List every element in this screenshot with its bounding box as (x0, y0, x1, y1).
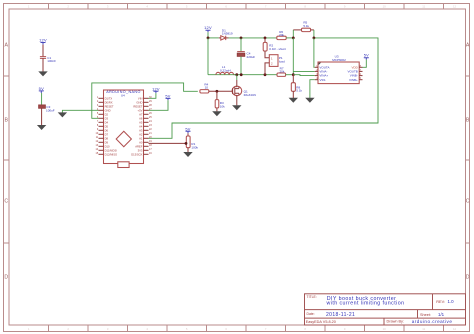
svg-text:VIN: VIN (138, 96, 143, 100)
U4 left pin names (105, 96, 118, 156)
wire GND pin to ground (62, 110, 98, 112)
svg-text:A0: A0 (139, 140, 143, 144)
svg-text:3V3: 3V3 (138, 148, 143, 152)
svg-text:D0/RX: D0/RX (105, 100, 113, 104)
title block DrawnBy divider (383, 318, 385, 325)
U4 diamond logo (116, 131, 131, 146)
wire lower bus left (208, 74, 237, 76)
wire C1 to ground (42, 58, 44, 71)
wire R5 right leg down (313, 30, 315, 38)
junction top bus / C4 (240, 37, 243, 40)
svg-text:5V: 5V (364, 53, 369, 58)
svg-text:D8: D8 (105, 136, 109, 140)
wire R8 branch (292, 75, 294, 83)
svg-text:C: C (4, 199, 8, 205)
U3 left pin names (319, 65, 329, 81)
svg-text:12V: 12V (152, 86, 160, 91)
wire A0 to R1 wiper (149, 142, 187, 144)
diode D1 1N5819 (219, 28, 233, 40)
svg-text:100k: 100k (191, 146, 198, 150)
svg-text:A2: A2 (139, 132, 143, 136)
wire Q1 source to ground (236, 95, 238, 106)
title block Sheet divider (417, 310, 419, 319)
svg-text:A1: A1 (139, 136, 143, 140)
U3 right pin stubs (359, 67, 362, 79)
svg-text:D4: D4 (105, 120, 109, 124)
svg-text:A7: A7 (139, 112, 143, 116)
wire A1 to feedback loop (long) (149, 38, 379, 138)
wire R4 to Q1 gate (209, 90, 233, 92)
svg-text:D9: D9 (105, 140, 109, 144)
svg-text:Date:: Date: (307, 312, 315, 316)
U4 right pin stubs (144, 98, 149, 154)
ground (R3) (212, 111, 221, 116)
svg-text:5.1k: 5.1k (296, 89, 302, 93)
ground (Q1) (232, 105, 241, 110)
svg-text:5V: 5V (185, 126, 190, 131)
wire R3 to ground (216, 108, 218, 112)
svg-text:load: load (279, 59, 285, 63)
svg-text:2018-11-21: 2018-11-21 (326, 312, 355, 318)
wire R2 branch from bus (264, 38, 266, 43)
svg-text:D: D (466, 275, 470, 281)
svg-text:D7: D7 (105, 132, 109, 136)
ground (U4 GND) (58, 112, 67, 117)
wire P1 pin2 to lower bus (265, 63, 269, 75)
U3 right pin numbers (360, 65, 362, 80)
wire VINA- (293, 70, 315, 72)
wire R2 to P1 pin1 (265, 51, 269, 58)
svg-text:D5: D5 (105, 124, 109, 128)
svg-text:+5V: +5V (138, 108, 143, 112)
resistor R2 shunt (263, 42, 286, 51)
svg-text:VSS: VSS (319, 78, 325, 82)
junction gate / R3 (216, 90, 219, 93)
power flag 5V (+5V pin) (165, 93, 170, 100)
title block box (305, 294, 466, 325)
svg-text:REV:: REV: (436, 300, 445, 304)
wire top bus segment (12V to D1) (208, 37, 219, 39)
resistor R4 10 (200, 83, 209, 93)
svg-text:10: 10 (383, 327, 387, 331)
ground (C1) (38, 71, 47, 76)
svg-text:B: B (4, 118, 8, 124)
svg-text:AREF: AREF (135, 144, 143, 148)
junction dot3 (R7/R8/VIN+) (292, 73, 295, 76)
border ticks sides (4, 76, 470, 243)
junction top bus / R2 (264, 37, 267, 40)
wire D3 to gate network (dogleg) (92, 83, 198, 118)
capacitor C4 220uF (237, 52, 255, 59)
svg-text:A6: A6 (139, 116, 143, 120)
svg-text:11: 11 (422, 5, 425, 9)
ground (U3 VSS) (305, 98, 314, 103)
wire R3 branch (216, 91, 218, 99)
svg-text:EasyEDA V5.8.20: EasyEDA V5.8.20 (306, 320, 336, 324)
svg-text:5V: 5V (165, 93, 170, 98)
capacitor C3 (polarized) (39, 105, 55, 112)
power flag 12V (VIN) (152, 86, 160, 93)
svg-text:0.22mH: 0.22mH (220, 68, 231, 72)
wire dot1 down to lower bus (292, 38, 294, 75)
wire R8 to ground (292, 91, 294, 98)
wire C4 branch upper (240, 38, 242, 52)
title block REV divider (432, 294, 434, 310)
wire dot2 down to VOUTA (313, 38, 316, 67)
svg-text:IRLZ44N: IRLZ44N (244, 93, 256, 97)
U4 right pin names (131, 96, 143, 156)
wire lower bus (L1 to R7) (234, 74, 278, 76)
wire C4 branch lower (240, 56, 242, 74)
svg-text:11: 11 (422, 327, 425, 331)
svg-text:D12/MISO: D12/MISO (105, 152, 118, 156)
svg-text:D3: D3 (105, 116, 109, 120)
power flag 12V (input) (204, 25, 212, 32)
wire VDD to 5V flag (363, 60, 367, 68)
svg-text:with current limiting function: with current limiting function (327, 301, 405, 307)
power flag 5V (U3 VDD) (364, 53, 369, 60)
junction top bus / 12V input (207, 37, 210, 40)
resistor R7 20k (277, 67, 286, 77)
svg-text:A4: A4 (139, 124, 143, 128)
wire 5V flag to C3 (41, 93, 43, 105)
junction lower bus / Q1 drain (235, 73, 238, 76)
svg-text:12: 12 (453, 5, 457, 9)
svg-text:arduino.creative: arduino.creative (412, 319, 453, 324)
svg-text:5.1k: 5.1k (303, 24, 309, 28)
resistor R6 20k (277, 30, 286, 40)
svg-text:220uF: 220uF (247, 55, 256, 59)
resistor R1 100k (186, 136, 198, 150)
resistor R8 5.1k (291, 83, 302, 93)
svg-text:A3: A3 (139, 128, 143, 132)
svg-text:Sheet:: Sheet: (420, 313, 431, 317)
svg-text:TITLE:: TITLE: (307, 295, 317, 299)
svg-text:D1/TX: D1/TX (105, 96, 113, 100)
svg-text:100nF: 100nF (47, 59, 56, 63)
U4 left pin stubs (99, 98, 104, 154)
power flag 5V (R1) (185, 126, 190, 133)
svg-text:GND: GND (136, 100, 142, 104)
svg-text:RESET: RESET (133, 104, 142, 108)
junction lower bus / P1 (264, 73, 267, 76)
svg-text:1N5819: 1N5819 (222, 32, 233, 36)
U3 left pin stubs (315, 67, 318, 79)
wire input vertical (12V to L1) (207, 38, 209, 75)
ground (R1) (183, 152, 192, 157)
ground (R8) (289, 98, 298, 103)
svg-text:1/1: 1/1 (438, 312, 445, 317)
svg-text:D10: D10 (105, 144, 110, 148)
svg-text:U4: U4 (121, 93, 125, 97)
svg-text:12: 12 (453, 327, 457, 331)
resistor R3 10k (215, 100, 225, 109)
U4 right pin numbers 30-16 (149, 96, 152, 155)
svg-text:MCP6002: MCP6002 (332, 58, 346, 62)
U3 left pin numbers (316, 65, 318, 80)
svg-text:0.1R - shunt: 0.1R - shunt (269, 47, 286, 51)
power flag 5V (C3 branch) (39, 86, 44, 93)
wire R6 to dot1 (286, 37, 293, 39)
connector P1 load (269, 55, 285, 67)
ground (C3) (37, 125, 46, 130)
title block row line 2 (305, 317, 466, 319)
svg-text:D13/SCK: D13/SCK (131, 152, 142, 156)
wire C3 to ground (41, 108, 43, 125)
wire 12V flag down to bus (207, 32, 209, 38)
junction dot2 (R5/VOUTA/A1) (313, 37, 316, 40)
junction R1 wiper (185, 142, 188, 145)
svg-text:12V: 12V (204, 25, 212, 30)
wire VSS to ground (310, 80, 315, 98)
U4 left pin numbers 1-15 (96, 96, 99, 155)
wire 5V flag to R1 (187, 133, 189, 136)
wire VINA+ (293, 74, 315, 77)
svg-text:D2: D2 (105, 112, 109, 116)
svg-text:10: 10 (383, 5, 387, 9)
capacitor C1 (40, 56, 56, 63)
svg-text:VINB+: VINB+ (349, 78, 358, 82)
svg-text:10k: 10k (220, 105, 225, 109)
svg-text:RESET: RESET (105, 104, 114, 108)
op-amp U4 ARDUINO_NANO body (104, 90, 144, 164)
title block row line 1 (305, 309, 466, 311)
svg-text:D: D (4, 275, 8, 281)
power flag 12V (C1 branch) (39, 38, 47, 45)
op-amp U3 MCP6002 body (318, 54, 359, 83)
junction dot1 (R6/R5) (292, 37, 295, 40)
svg-text:D6: D6 (105, 128, 109, 132)
wire Q1 drain to lower bus (236, 75, 238, 80)
resistor R5 5.1k (293, 21, 314, 32)
wire 12V flag to C1 (42, 45, 44, 57)
inductor L1 (216, 65, 234, 75)
wire R1 to ground (187, 148, 189, 153)
transistor Q1 IRLZ44N (232, 86, 256, 97)
border row letters (4, 43, 470, 281)
svg-text:20k: 20k (279, 33, 284, 37)
svg-text:5V: 5V (39, 86, 44, 91)
wire VIN to 12V flag (149, 93, 156, 98)
wire R7 to dot3 (286, 74, 294, 76)
svg-text:GND: GND (105, 108, 111, 112)
svg-text:D11/MOSI: D11/MOSI (105, 148, 118, 152)
svg-text:20k: 20k (279, 70, 284, 74)
svg-text:12V: 12V (39, 38, 47, 43)
svg-text:A5: A5 (139, 120, 143, 124)
U3 right pin names (347, 65, 358, 81)
svg-text:1.0: 1.0 (448, 299, 455, 304)
svg-text:100uF: 100uF (46, 108, 55, 112)
wire top bus segment (D1 to R6) (229, 37, 277, 39)
junction lower bus / C4 (240, 73, 243, 76)
svg-text:10: 10 (205, 86, 209, 90)
svg-text:Drawn By:: Drawn By: (387, 320, 405, 324)
U4 usb connector rect (118, 162, 129, 168)
svg-text:A: A (4, 43, 8, 49)
wire +5V pin to 5V flag (149, 100, 169, 110)
wire R5 left leg down (292, 30, 294, 38)
svg-text:A: A (466, 43, 470, 49)
svg-text:B: B (466, 118, 470, 124)
svg-text:C: C (466, 199, 470, 205)
